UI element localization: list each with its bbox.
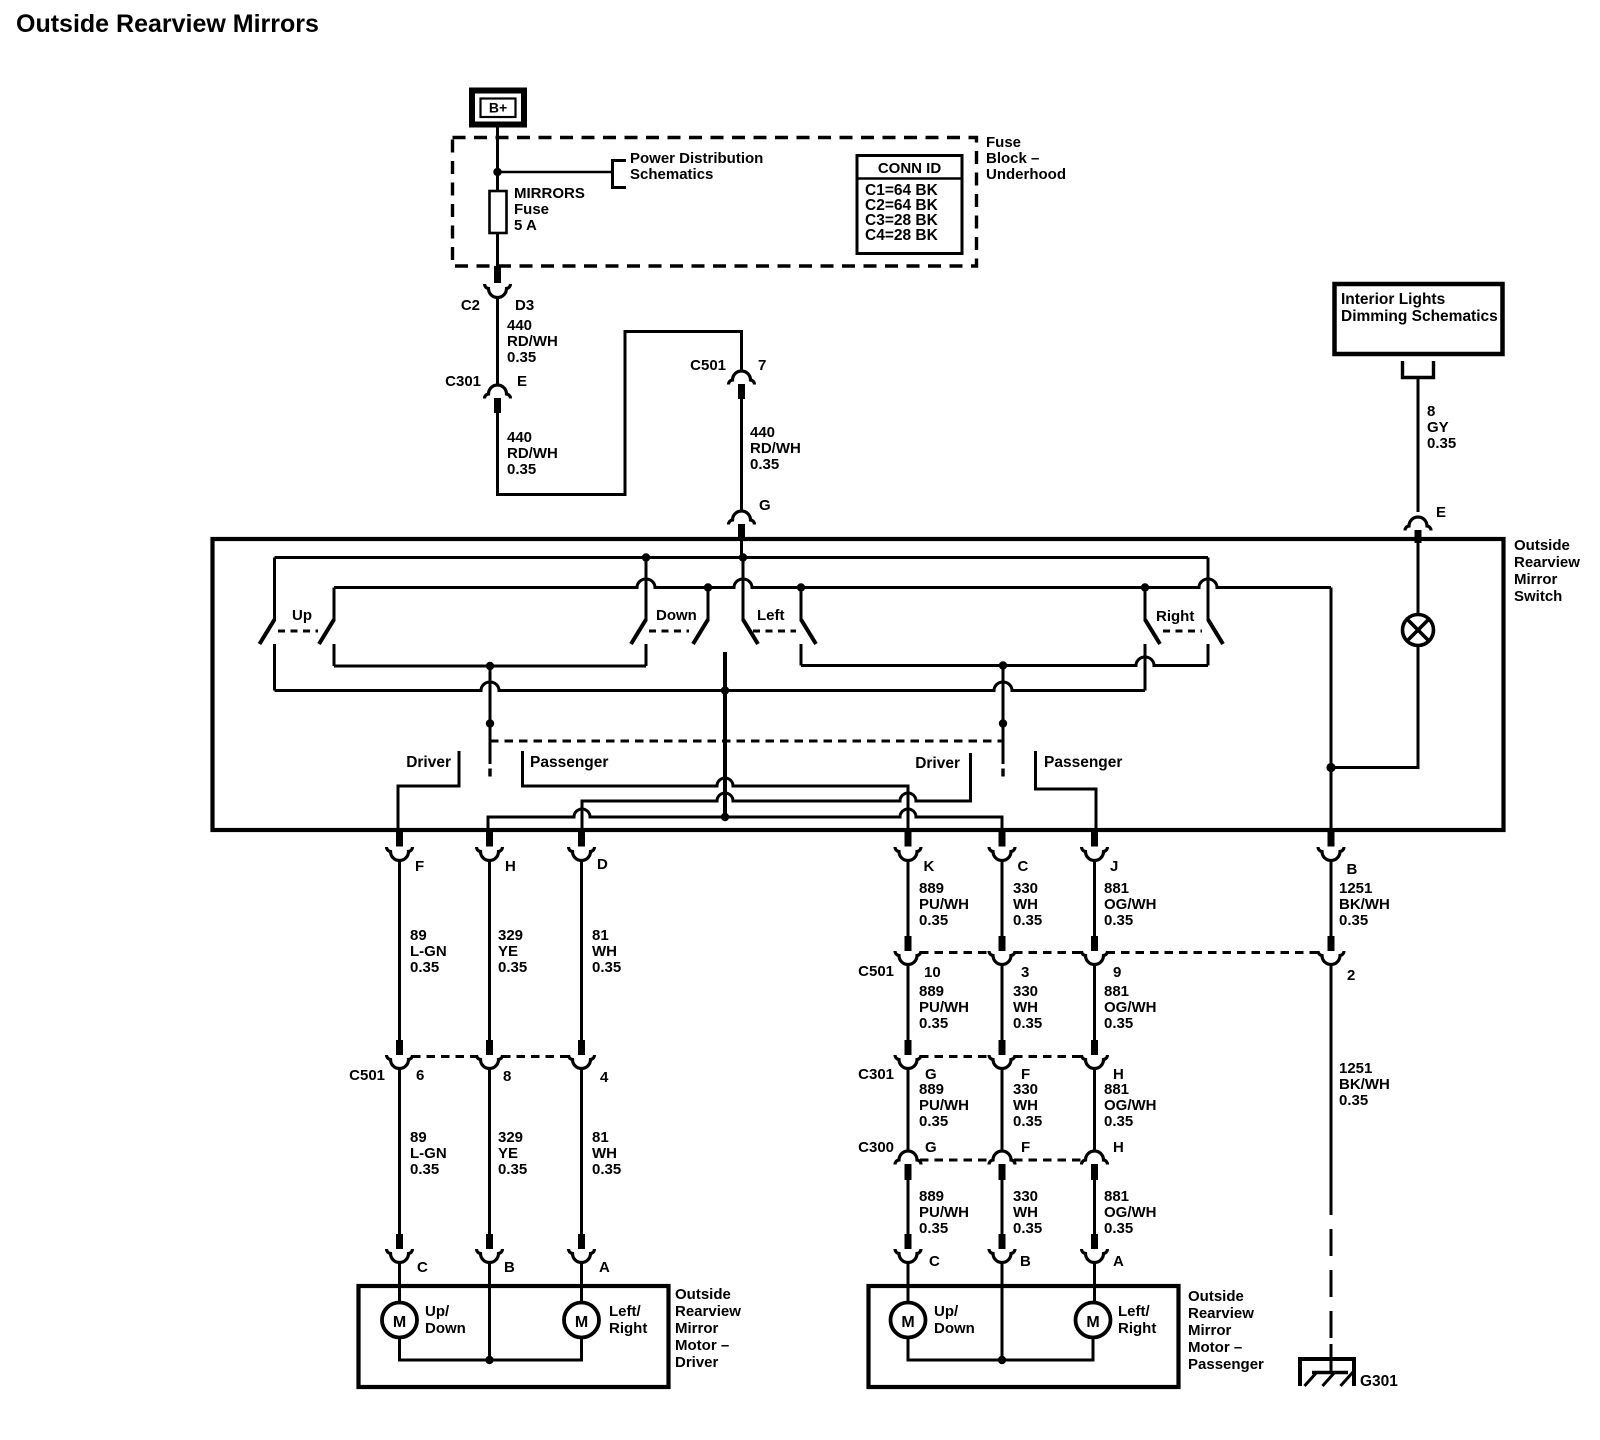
svg-text:Driver: Driver bbox=[675, 1354, 719, 1371]
svg-text:OG/WH: OG/WH bbox=[1104, 1097, 1157, 1114]
motor M up/down passenger bbox=[891, 1303, 926, 1338]
svg-text:0.35: 0.35 bbox=[919, 1015, 948, 1032]
switch Down bbox=[645, 558, 648, 622]
svg-text:RD/WH: RD/WH bbox=[507, 333, 558, 350]
wire passenger contact to pin J bbox=[1036, 751, 1097, 830]
svg-text:2: 2 bbox=[1347, 967, 1355, 984]
svg-text:Down: Down bbox=[656, 607, 697, 624]
outside rearview mirror motor passenger box bbox=[869, 1286, 1179, 1387]
wire driver-passenger selector pole right bbox=[1002, 666, 1005, 765]
svg-text:OG/WH: OG/WH bbox=[1104, 999, 1157, 1016]
svg-text:Down: Down bbox=[934, 1320, 975, 1337]
wire 330 WH 0.35 pin C bbox=[1001, 860, 1004, 937]
svg-text:BK/WH: BK/WH bbox=[1339, 1076, 1390, 1093]
svg-text:B: B bbox=[1020, 1253, 1031, 1270]
svg-text:WH: WH bbox=[1013, 999, 1038, 1016]
svg-text:330: 330 bbox=[1013, 880, 1038, 897]
svg-text:YE: YE bbox=[498, 943, 518, 960]
wire 889 PU/WH 0.35 pin K bbox=[907, 860, 910, 937]
driver mirror motor pin B bbox=[486, 1234, 493, 1249]
svg-text:0.35: 0.35 bbox=[1104, 1220, 1133, 1237]
svg-text:Up/: Up/ bbox=[934, 1303, 959, 1320]
svg-text:L-GN: L-GN bbox=[410, 1145, 447, 1162]
svg-text:889: 889 bbox=[919, 1188, 944, 1205]
svg-text:8: 8 bbox=[1427, 403, 1435, 420]
svg-text:PU/WH: PU/WH bbox=[919, 896, 969, 913]
wire 81 WH 0.35 pin D bbox=[580, 860, 583, 1041]
svg-text:0.35: 0.35 bbox=[1339, 1092, 1368, 1109]
wire lamp to ground bus bbox=[1331, 646, 1418, 768]
svg-text:D3: D3 bbox=[515, 297, 534, 314]
switch pin F bbox=[396, 830, 403, 847]
svg-text:M: M bbox=[575, 1314, 588, 1331]
svg-text:RD/WH: RD/WH bbox=[750, 440, 801, 457]
svg-text:GY: GY bbox=[1427, 419, 1449, 436]
svg-text:Up: Up bbox=[292, 607, 312, 624]
motor M left/right passenger bbox=[1076, 1303, 1111, 1338]
svg-text:Left/: Left/ bbox=[609, 1303, 641, 1320]
svg-text:3: 3 bbox=[1021, 964, 1029, 981]
interior lights dimming schematics box bbox=[1335, 284, 1503, 354]
svg-text:E: E bbox=[1436, 504, 1446, 521]
svg-text:CONN ID: CONN ID bbox=[878, 160, 942, 177]
wire B+ to fuse bbox=[496, 125, 499, 193]
wire center pole bbox=[723, 652, 727, 817]
svg-text:Power Distribution: Power Distribution bbox=[630, 150, 763, 167]
svg-text:WH: WH bbox=[1013, 1204, 1038, 1221]
svg-text:Left/: Left/ bbox=[1118, 1303, 1150, 1320]
svg-text:M: M bbox=[901, 1314, 914, 1331]
svg-text:WH: WH bbox=[1013, 1097, 1038, 1114]
svg-text:0.35: 0.35 bbox=[1104, 1015, 1133, 1032]
node rail 2 taps bbox=[704, 583, 712, 591]
wire 440 RD/WH 0.35 to C501 bbox=[498, 332, 742, 495]
svg-text:Underhood: Underhood bbox=[986, 166, 1066, 183]
wire to power distribution callout bbox=[498, 171, 613, 174]
battery terminal B+ bbox=[472, 91, 524, 125]
svg-text:330: 330 bbox=[1013, 1081, 1038, 1098]
wire rail 3 bbox=[275, 682, 1146, 690]
svg-text:Down: Down bbox=[425, 1320, 466, 1337]
svg-text:Outside: Outside bbox=[1514, 537, 1570, 554]
svg-text:0.35: 0.35 bbox=[410, 959, 439, 976]
svg-text:YE: YE bbox=[498, 1145, 518, 1162]
svg-text:E: E bbox=[517, 373, 527, 390]
wire 881 OG/WH 0.35 segment 4 bbox=[1093, 1180, 1096, 1235]
outside rearview mirror motor driver box bbox=[359, 1286, 669, 1387]
svg-text:C4=28 BK: C4=28 BK bbox=[865, 227, 939, 244]
wire switch ground B bbox=[1330, 588, 1333, 831]
svg-text:81: 81 bbox=[592, 927, 609, 944]
svg-text:0.35: 0.35 bbox=[1013, 1220, 1042, 1237]
wire 889 PU/WH 0.35 segment 3 bbox=[907, 1068, 910, 1152]
svg-text:Rearview: Rearview bbox=[675, 1303, 741, 1320]
svg-text:0.35: 0.35 bbox=[919, 1220, 948, 1237]
svg-text:0.35: 0.35 bbox=[1427, 435, 1456, 452]
fuse MIRRORS 5A bbox=[496, 192, 499, 268]
wire 329 YE 0.35 pin H bbox=[488, 860, 491, 1041]
svg-text:330: 330 bbox=[1013, 1188, 1038, 1205]
svg-text:89: 89 bbox=[410, 1129, 427, 1146]
svg-text:0.35: 0.35 bbox=[919, 912, 948, 929]
svg-text:Up/: Up/ bbox=[425, 1303, 450, 1320]
svg-text:Schematics: Schematics bbox=[630, 166, 713, 183]
svg-text:5 A: 5 A bbox=[514, 217, 537, 234]
connector C301 pin E bbox=[484, 385, 510, 399]
svg-text:PU/WH: PU/WH bbox=[919, 1097, 969, 1114]
connector C2 pin D3 bbox=[494, 266, 501, 283]
svg-text:0.35: 0.35 bbox=[1104, 912, 1133, 929]
connector C301 pins G F H bbox=[905, 1040, 912, 1055]
fuse block underhood dashed box bbox=[453, 138, 977, 267]
svg-text:Mirror: Mirror bbox=[675, 1320, 719, 1337]
wire rail A left bbox=[334, 665, 646, 668]
svg-text:C301: C301 bbox=[858, 1066, 894, 1083]
wire 89 L-GN 0.35 pin F bbox=[398, 860, 401, 1041]
svg-text:8: 8 bbox=[503, 1068, 511, 1085]
svg-text:M: M bbox=[393, 1314, 406, 1331]
svg-text:F: F bbox=[1021, 1139, 1030, 1156]
svg-text:Outside Rearview Mirrors: Outside Rearview Mirrors bbox=[16, 10, 319, 38]
svg-text:H: H bbox=[505, 858, 516, 875]
svg-text:0.35: 0.35 bbox=[498, 959, 527, 976]
svg-text:10: 10 bbox=[924, 964, 941, 981]
svg-text:C501: C501 bbox=[349, 1067, 385, 1084]
passenger mirror motor pin A bbox=[1091, 1234, 1098, 1249]
svg-text:6: 6 bbox=[416, 1067, 424, 1084]
svg-text:881: 881 bbox=[1104, 983, 1129, 1000]
svg-text:Motor –: Motor – bbox=[1188, 1339, 1242, 1356]
svg-text:K: K bbox=[924, 858, 935, 875]
svg-text:MIRRORS: MIRRORS bbox=[514, 185, 585, 202]
svg-text:0.35: 0.35 bbox=[507, 461, 536, 478]
svg-text:Passenger: Passenger bbox=[1188, 1356, 1264, 1373]
svg-text:440: 440 bbox=[507, 317, 532, 334]
wire 889 PU/WH 0.35 segment 2 bbox=[907, 964, 910, 1041]
passenger mirror motor pin B bbox=[999, 1234, 1006, 1249]
wire rail 2 bbox=[334, 579, 1331, 588]
wire 81 WH 0.35 segment 2 bbox=[580, 1068, 583, 1234]
svg-text:1251: 1251 bbox=[1339, 1060, 1372, 1077]
svg-text:G301: G301 bbox=[1360, 1373, 1398, 1390]
svg-text:0.35: 0.35 bbox=[1013, 912, 1042, 929]
svg-text:Driver: Driver bbox=[406, 754, 451, 771]
svg-text:440: 440 bbox=[750, 424, 775, 441]
svg-text:Block –: Block – bbox=[986, 150, 1039, 167]
svg-text:H: H bbox=[1113, 1139, 1124, 1156]
svg-text:9: 9 bbox=[1113, 964, 1121, 981]
connector C501 pin 2 bbox=[1328, 936, 1335, 951]
switch pin B bbox=[1328, 830, 1335, 847]
svg-text:0.35: 0.35 bbox=[592, 959, 621, 976]
svg-text:Fuse: Fuse bbox=[986, 134, 1021, 151]
svg-text:C2: C2 bbox=[461, 297, 480, 314]
svg-text:PU/WH: PU/WH bbox=[919, 1204, 969, 1221]
ground G301 bbox=[1330, 1344, 1333, 1372]
svg-text:G: G bbox=[759, 497, 771, 514]
svg-text:B+: B+ bbox=[489, 100, 507, 116]
switch pin C bbox=[999, 830, 1006, 847]
wire from interior lights box bbox=[1403, 361, 1434, 378]
svg-text:WH: WH bbox=[1013, 896, 1038, 913]
connector C501 passenger pins 10 3 9 bbox=[905, 936, 912, 951]
wire passenger contact to pin K bbox=[523, 751, 909, 830]
svg-text:Outside: Outside bbox=[675, 1286, 731, 1303]
svg-text:Right: Right bbox=[609, 1320, 647, 1337]
svg-text:881: 881 bbox=[1104, 1188, 1129, 1205]
switch Right bbox=[1144, 588, 1147, 622]
svg-text:Mirror: Mirror bbox=[1514, 571, 1558, 588]
svg-text:Rearview: Rearview bbox=[1188, 1305, 1254, 1322]
svg-text:F: F bbox=[415, 858, 424, 875]
motor M left/right driver bbox=[564, 1303, 599, 1338]
svg-text:0.35: 0.35 bbox=[1104, 1113, 1133, 1130]
svg-text:889: 889 bbox=[919, 1081, 944, 1098]
svg-text:329: 329 bbox=[498, 1129, 523, 1146]
svg-text:Rearview: Rearview bbox=[1514, 554, 1580, 571]
svg-text:OG/WH: OG/WH bbox=[1104, 1204, 1157, 1221]
svg-text:Passenger: Passenger bbox=[1044, 754, 1122, 771]
svg-text:C: C bbox=[929, 1253, 940, 1270]
wire passenger motor common bbox=[908, 1338, 1093, 1361]
svg-text:0.35: 0.35 bbox=[507, 349, 536, 366]
connector C501 driver pins 6 8 4 bbox=[396, 1040, 403, 1055]
svg-text:J: J bbox=[1110, 858, 1118, 875]
svg-text:C: C bbox=[417, 1259, 428, 1276]
wire driver motor common bbox=[400, 1338, 582, 1361]
svg-text:G: G bbox=[925, 1139, 937, 1156]
svg-text:81: 81 bbox=[592, 1129, 609, 1146]
wire 440 RD/WH 0.35 to switch bbox=[740, 398, 743, 512]
power distribution schematics callout bracket bbox=[613, 161, 627, 188]
switch pin H bbox=[486, 830, 493, 847]
svg-text:Mirror: Mirror bbox=[1188, 1322, 1232, 1339]
svg-text:4: 4 bbox=[600, 1069, 609, 1086]
switch Up bbox=[273, 558, 276, 622]
svg-text:Right: Right bbox=[1156, 608, 1194, 625]
CONN ID table bbox=[857, 156, 962, 254]
svg-text:889: 889 bbox=[919, 983, 944, 1000]
svg-text:0.35: 0.35 bbox=[1013, 1113, 1042, 1130]
svg-text:Driver: Driver bbox=[915, 755, 960, 772]
svg-text:L-GN: L-GN bbox=[410, 943, 447, 960]
driver mirror motor pin C bbox=[396, 1234, 403, 1249]
switch pin K bbox=[905, 830, 912, 847]
node G feed on rail 1 bbox=[642, 553, 650, 561]
svg-text:Left: Left bbox=[757, 607, 785, 624]
wire 881 OG/WH 0.35 segment 3 bbox=[1093, 1068, 1096, 1152]
connector C501 pin 7 bbox=[728, 371, 754, 385]
svg-text:0.35: 0.35 bbox=[592, 1161, 621, 1178]
svg-text:7: 7 bbox=[758, 357, 766, 374]
svg-text:0.35: 0.35 bbox=[410, 1161, 439, 1178]
motor M up/down driver bbox=[382, 1303, 417, 1338]
svg-text:C: C bbox=[1018, 858, 1029, 875]
wire 440 RD/WH 0.35 upper bbox=[496, 297, 499, 385]
svg-text:WH: WH bbox=[592, 943, 617, 960]
svg-text:RD/WH: RD/WH bbox=[507, 445, 558, 462]
svg-text:89: 89 bbox=[410, 927, 427, 944]
svg-text:Motor –: Motor – bbox=[675, 1337, 729, 1354]
svg-text:1251: 1251 bbox=[1339, 880, 1372, 897]
node power feed junction bbox=[493, 168, 501, 176]
svg-text:330: 330 bbox=[1013, 983, 1038, 1000]
svg-text:329: 329 bbox=[498, 927, 523, 944]
svg-text:0.35: 0.35 bbox=[1013, 1015, 1042, 1032]
svg-text:M: M bbox=[1086, 1314, 1099, 1331]
svg-text:Fuse: Fuse bbox=[514, 201, 549, 218]
svg-text:Outside: Outside bbox=[1188, 1288, 1244, 1305]
svg-text:D: D bbox=[597, 856, 608, 873]
svg-text:C501: C501 bbox=[858, 963, 894, 980]
wire 330 WH 0.35 segment 3 bbox=[1001, 1068, 1004, 1152]
wire 329 YE 0.35 segment 2 bbox=[488, 1068, 491, 1234]
wire 889 PU/WH 0.35 segment 4 bbox=[907, 1180, 910, 1235]
wire common to pins H and C bbox=[488, 809, 1002, 830]
driver mirror motor pin A bbox=[578, 1234, 585, 1249]
outside rearview mirror switch box bbox=[213, 539, 1504, 830]
svg-text:A: A bbox=[1113, 1253, 1124, 1270]
svg-text:440: 440 bbox=[507, 429, 532, 446]
wire 1251 BK/WH 0.35 pin B bbox=[1330, 860, 1333, 937]
svg-text:C300: C300 bbox=[858, 1139, 894, 1156]
wire 330 WH 0.35 segment 2 bbox=[1001, 964, 1004, 1041]
wire rail A right bbox=[801, 657, 1208, 666]
svg-text:889: 889 bbox=[919, 880, 944, 897]
wire 89 L-GN 0.35 segment 2 bbox=[398, 1068, 401, 1234]
wire 881 OG/WH 0.35 pin J bbox=[1093, 860, 1096, 937]
wire 881 OG/WH 0.35 segment 2 bbox=[1093, 964, 1096, 1041]
switch pin J bbox=[1091, 830, 1098, 847]
wire driver contact to pin D bbox=[582, 753, 971, 830]
wire rail 1 B+ feed bbox=[275, 556, 1209, 559]
svg-text:Switch: Switch bbox=[1514, 588, 1562, 605]
svg-text:881: 881 bbox=[1104, 1081, 1129, 1098]
svg-text:Interior Lights: Interior Lights bbox=[1341, 291, 1445, 308]
svg-text:A: A bbox=[599, 1259, 610, 1276]
switch Left bbox=[742, 558, 745, 622]
connector C300 pins G F H bbox=[895, 1151, 921, 1165]
svg-text:881: 881 bbox=[1104, 880, 1129, 897]
svg-text:Passenger: Passenger bbox=[530, 754, 608, 771]
wire driver contact to pin F bbox=[398, 751, 459, 830]
svg-text:BK/WH: BK/WH bbox=[1339, 896, 1390, 913]
svg-text:0.35: 0.35 bbox=[919, 1113, 948, 1130]
svg-text:0.35: 0.35 bbox=[750, 456, 779, 473]
svg-text:0.35: 0.35 bbox=[1339, 912, 1368, 929]
switch pin D bbox=[578, 830, 585, 847]
svg-text:0.35: 0.35 bbox=[498, 1161, 527, 1178]
illumination lamp bbox=[1403, 615, 1434, 646]
svg-text:C301: C301 bbox=[445, 373, 481, 390]
svg-text:Dimming Schematics: Dimming Schematics bbox=[1341, 308, 1498, 325]
wire 1251 BK/WH 0.35 to ground bbox=[1330, 964, 1333, 1188]
wire 330 WH 0.35 segment 4 bbox=[1001, 1180, 1004, 1235]
svg-text:B: B bbox=[504, 1259, 515, 1276]
node lamp ground junction bbox=[1326, 763, 1335, 772]
wire driver-passenger selector pole left bbox=[489, 666, 492, 764]
selector mechanical link bbox=[490, 740, 1002, 743]
svg-text:Right: Right bbox=[1118, 1320, 1156, 1337]
svg-text:WH: WH bbox=[592, 1145, 617, 1162]
passenger mirror motor pin C bbox=[905, 1234, 912, 1249]
svg-text:PU/WH: PU/WH bbox=[919, 999, 969, 1016]
svg-text:C501: C501 bbox=[690, 357, 726, 374]
svg-text:OG/WH: OG/WH bbox=[1104, 896, 1157, 913]
svg-text:B: B bbox=[1347, 861, 1358, 878]
